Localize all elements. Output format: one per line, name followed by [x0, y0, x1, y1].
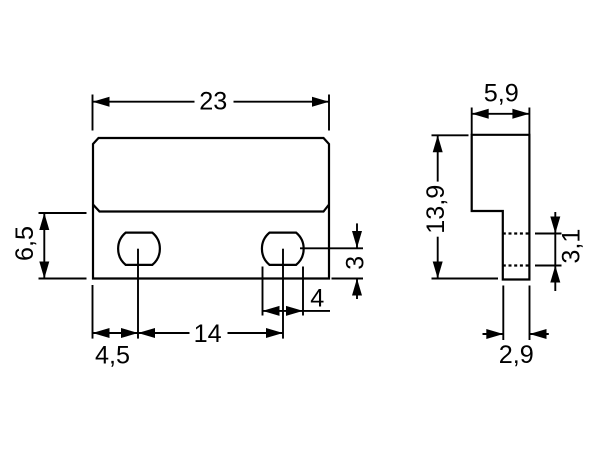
dim 4 line: [263, 310, 331, 312]
side view hidden dashed line lower: [503, 264, 530, 266]
hole right tangent extension left: [262, 267, 264, 316]
front view outline: [93, 138, 329, 279]
dim 3,1 extension lower: [535, 265, 562, 267]
dim 2,9 extension right: [529, 286, 531, 341]
svg-text:3,1: 3,1: [558, 229, 586, 264]
hole left: [118, 233, 160, 265]
arrow 2,9 left (points right): [486, 329, 503, 339]
svg-text:2,9: 2,9: [499, 341, 534, 369]
dim 13,9 extension bottom: [432, 278, 499, 280]
svg-text:5,9: 5,9: [484, 80, 519, 108]
svg-text:3: 3: [341, 256, 369, 270]
dim 23 extension right: [328, 95, 330, 131]
dim 23 extension left: [92, 95, 94, 131]
dim 13,9 line: [437, 135, 439, 181]
svg-text:13,9: 13,9: [422, 185, 450, 234]
front left edge extension down: [92, 285, 94, 339]
arrow 2,9 right (points left): [530, 329, 547, 339]
dim 3 extension top (from hole center): [300, 247, 363, 249]
dim 5,9 line: [472, 113, 530, 115]
dim 5,9 extension left: [471, 108, 473, 135]
dim 3 extension bottom: [332, 278, 364, 280]
arrow 4 right: [286, 306, 303, 316]
dim 13,9 extension top: [432, 134, 469, 136]
arrow 4,5 right: [121, 328, 138, 338]
svg-text:4: 4: [310, 284, 324, 312]
arrow 5,9 left: [472, 109, 489, 119]
dim 6,5 extension bottom: [39, 278, 87, 280]
arrow 3,1 top (points down): [550, 217, 560, 234]
arrow 3,1 bottom (points up): [550, 266, 560, 283]
dim 3,1 extension upper: [535, 233, 562, 235]
dim 2,9 extension left: [502, 286, 504, 341]
svg-text:23: 23: [199, 88, 227, 116]
arrow 5,9 right: [512, 109, 529, 119]
hole right: [262, 233, 304, 265]
arrow 4 left: [263, 306, 280, 316]
side view outline: [472, 135, 530, 280]
arrow 3 bottom (points up): [352, 279, 362, 296]
dim 23 line: [93, 101, 195, 103]
arrow 6,5 top: [39, 213, 49, 230]
hole centerline right: [282, 249, 284, 339]
dim 4,5 and 14 line: [93, 332, 190, 334]
arrow 6,5 bottom: [39, 262, 49, 279]
dim 6,5 line: [43, 213, 45, 279]
svg-text:6,5: 6,5: [11, 226, 39, 261]
dim 3,1 line: [554, 212, 556, 291]
arrow 14 right: [266, 328, 283, 338]
hole right tangent extension right: [302, 267, 304, 316]
svg-text:14: 14: [194, 320, 222, 348]
dim 5,9 extension right: [528, 108, 530, 135]
hole centerline left: [137, 249, 139, 339]
arrow 4,5 left: [93, 328, 110, 338]
svg-text:4,5: 4,5: [95, 341, 130, 369]
arrow 13,9 bottom: [433, 262, 443, 279]
dim 6,5 extension top: [39, 212, 87, 214]
side view hidden dashed line upper: [503, 232, 530, 234]
arrow 13,9 top: [433, 135, 443, 152]
arrow 14 left: [138, 328, 155, 338]
arrow 3 top (points down): [352, 231, 362, 248]
arrow 23 right: [312, 97, 329, 107]
dim 2,9 line shafts: [483, 333, 504, 335]
front view inner divider line: [93, 205, 329, 212]
dim 3 line shafts: [356, 223, 358, 248]
arrow 23 left: [93, 97, 110, 107]
